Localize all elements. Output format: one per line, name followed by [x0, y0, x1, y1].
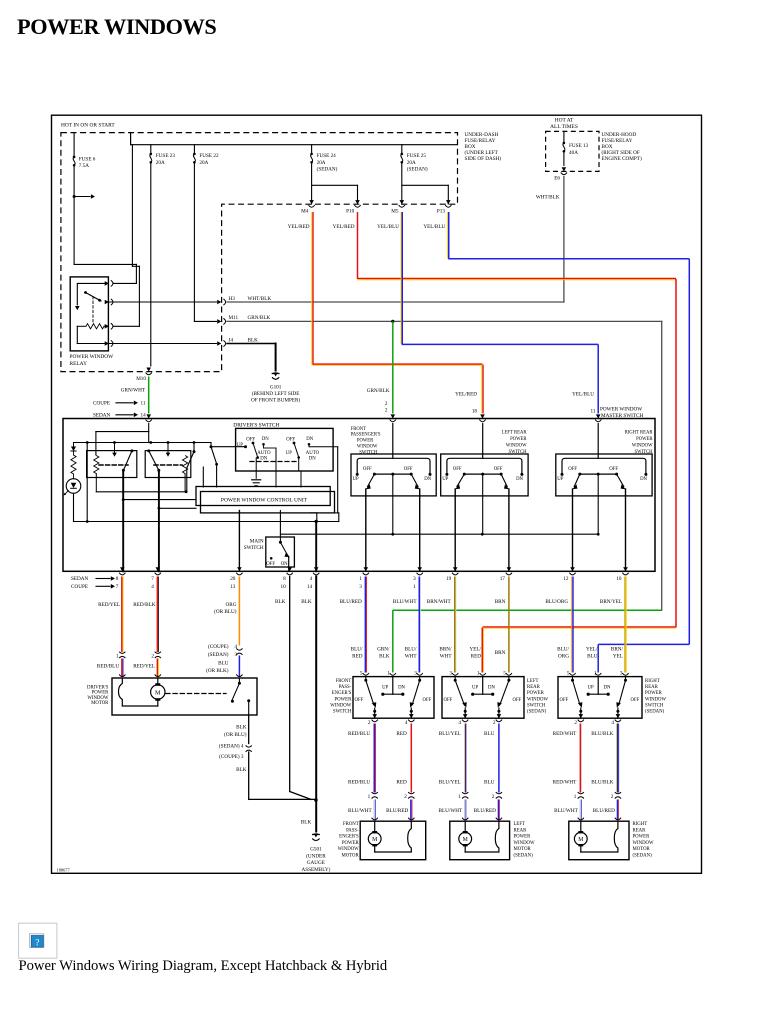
svg-text:J4: J4	[229, 337, 234, 343]
svg-text:UP: UP	[442, 477, 448, 482]
master internal bus	[74, 442, 212, 444]
svg-text:WHT: WHT	[405, 653, 418, 659]
relay coil box A	[87, 451, 137, 478]
svg-text:BLU/RED: BLU/RED	[474, 808, 496, 814]
svg-text:BLU/YEL: BLU/YEL	[439, 731, 461, 737]
svg-text:DN: DN	[309, 456, 316, 461]
wire YEL/BLU from P13	[448, 212, 450, 259]
svg-text:(OR BLU): (OR BLU)	[224, 731, 247, 738]
wire BLU/YEL lr	[465, 724, 467, 793]
master pin GRN/WHT	[146, 414, 151, 418]
svg-text:ORG: ORG	[226, 602, 237, 608]
svg-text:POWER WINDOW CONTROL UNIT: POWER WINDOW CONTROL UNIT	[221, 498, 308, 504]
wire RED/YEL driver down lower	[156, 659, 158, 678]
svg-text:OFF: OFF	[513, 698, 522, 703]
svg-text:20: 20	[230, 576, 236, 582]
wire GRN/BLK drop to master	[392, 321, 394, 413]
svg-text:MOTOR: MOTOR	[341, 854, 359, 859]
wire DN to right side	[337, 447, 339, 513]
svg-text:WINDOW: WINDOW	[357, 445, 378, 450]
svg-text:(BEHIND LEFT SIDE: (BEHIND LEFT SIDE	[252, 390, 300, 397]
svg-text:4: 4	[405, 720, 408, 726]
left rear window motor (sedan) box	[450, 821, 510, 860]
right rear switch (sedan) left blade	[572, 677, 574, 680]
svg-text:REAR: REAR	[514, 828, 528, 833]
left rear switch (sedan) left blade	[454, 677, 456, 680]
driver's power window motor box	[112, 678, 257, 715]
left rear window switch (master) box	[441, 454, 528, 496]
svg-text:10: 10	[281, 584, 287, 590]
svg-text:BRN/: BRN/	[439, 647, 452, 653]
svg-text:WINDOW: WINDOW	[632, 444, 653, 449]
svg-text:RED: RED	[471, 653, 482, 659]
svg-text:MASTER SWITCH: MASTER SWITCH	[601, 413, 643, 419]
svg-text:E6: E6	[554, 176, 560, 182]
fuse F22 20A	[193, 145, 195, 153]
connector M11	[217, 319, 221, 324]
svg-text:(COUPE): (COUPE)	[208, 643, 229, 650]
svg-text:M: M	[578, 837, 583, 843]
connector M4	[309, 200, 314, 204]
power window master switch box	[63, 419, 655, 572]
svg-text:BLU/RED: BLU/RED	[593, 808, 615, 814]
svg-text:HOT IN ON OR START: HOT IN ON OR START	[61, 123, 115, 129]
right rear window switch (master) box	[556, 454, 652, 496]
svg-text:REAR: REAR	[633, 828, 647, 833]
front passenger window motor bottom link	[375, 851, 412, 853]
ground G501	[314, 833, 319, 837]
front passenger switch (sedan) bottom pins	[372, 714, 377, 718]
svg-text:M10: M10	[136, 376, 146, 382]
right rear window motor (sedan) box	[569, 821, 629, 860]
svg-text:GRN/BLK: GRN/BLK	[248, 315, 271, 321]
wire relay feed from bus	[131, 145, 133, 267]
wire RED/BLU fp	[373, 724, 375, 793]
fuse F23 20A	[150, 145, 152, 153]
svg-text:YEL/RED: YEL/RED	[333, 224, 355, 230]
svg-text:BLK: BLK	[248, 337, 259, 343]
svg-text:4: 4	[310, 576, 313, 582]
svg-text:2: 2	[385, 401, 388, 407]
wire cluster outputs	[255, 458, 257, 478]
svg-text:BLU: BLU	[218, 661, 229, 667]
svg-text:RED: RED	[396, 731, 407, 737]
svg-text:GAUGE: GAUGE	[307, 860, 325, 866]
svg-text:POWER: POWER	[357, 439, 374, 444]
svg-text:G101: G101	[270, 385, 282, 391]
svg-text:DN: DN	[306, 437, 313, 442]
front passenger window motor breaker	[408, 821, 412, 852]
front passenger switch (sedan) UP DN tee	[392, 677, 394, 695]
svg-text:HOT AT: HOT AT	[555, 117, 574, 123]
svg-text:BLK: BLK	[379, 653, 390, 659]
svg-text:OFF: OFF	[266, 562, 275, 567]
svg-text:RED/BLU: RED/BLU	[348, 731, 370, 737]
front passenger window switch (master) DN blade	[411, 474, 418, 487]
fuse F6 7.5A	[73, 133, 75, 156]
resistor R1	[73, 451, 75, 455]
left rear switch (sedan) bottom pins	[463, 714, 468, 718]
svg-text:ASSEMBLY): ASSEMBLY)	[301, 866, 330, 873]
right rear window motor (sedan) breaker	[614, 821, 618, 852]
wire GRN/BLK right drop	[661, 321, 663, 610]
right rear window switch (master) feed	[597, 424, 599, 459]
svg-text:4: 4	[235, 644, 238, 650]
svg-text:POWER WINDOW: POWER WINDOW	[70, 354, 115, 360]
svg-text:2: 2	[611, 794, 614, 800]
master pin 7/4	[156, 567, 161, 571]
front passenger switch (sedan) pin chevrons	[363, 673, 369, 675]
wire BRN/WHT to lr switch	[454, 577, 456, 673]
diagram outer border	[52, 115, 702, 873]
svg-text:BLK: BLK	[236, 725, 247, 731]
wire relay pin2 to H3	[109, 301, 217, 303]
left rear switch (sedan) pin chevrons	[452, 673, 458, 675]
svg-text:SWITCH: SWITCH	[244, 545, 264, 551]
front passenger window switch (master) center wire	[392, 474, 394, 534]
svg-text:20A: 20A	[407, 160, 416, 166]
svg-text:(SEDAN): (SEDAN)	[514, 854, 534, 859]
master pin 12	[570, 567, 575, 571]
svg-text:RED/WHT: RED/WHT	[553, 779, 577, 785]
svg-text:RIGHT: RIGHT	[645, 679, 660, 684]
internal rail to switches	[280, 533, 598, 535]
svg-text:2: 2	[492, 794, 495, 800]
front passenger window motor pin chevrons	[372, 818, 378, 820]
svg-text:PASSENGER'S: PASSENGER'S	[351, 433, 381, 438]
svg-text:RED/WHT: RED/WHT	[553, 731, 577, 737]
left rear window switch (master) feed	[482, 424, 484, 459]
svg-text:WHT/BLK: WHT/BLK	[248, 296, 272, 302]
svg-text:POWER: POWER	[514, 835, 532, 840]
svg-text:YEL/: YEL/	[469, 647, 481, 653]
wire GRN/BLK run	[227, 320, 662, 322]
svg-text:7.5A: 7.5A	[79, 163, 89, 169]
svg-text:BLU/ORG: BLU/ORG	[545, 599, 568, 605]
right rear switch (sedan) right blade	[625, 677, 627, 680]
svg-text:UP: UP	[286, 451, 292, 456]
svg-text:MOTOR: MOTOR	[514, 847, 532, 852]
driver motor M	[155, 674, 161, 676]
svg-text:H3: H3	[229, 296, 236, 302]
svg-text:OFF: OFF	[444, 698, 453, 703]
svg-text:RED/BLU: RED/BLU	[348, 779, 370, 785]
right rear window switch (master) contact bar	[562, 458, 646, 474]
svg-text:BLK: BLK	[301, 820, 312, 826]
svg-text:4: 4	[458, 720, 461, 726]
svg-text:BRN: BRN	[495, 650, 506, 656]
right rear switch (sedan) bottom pins	[579, 714, 584, 718]
wire DN drive output	[158, 470, 160, 571]
svg-text:UP: UP	[472, 686, 478, 691]
right rear window switch (master) DN blade	[617, 474, 624, 487]
relay internal contact arm	[77, 283, 108, 305]
driver motor bottom link	[122, 705, 158, 707]
wire internal branch	[86, 443, 88, 522]
svg-text:UP: UP	[557, 477, 563, 482]
ground G101	[273, 372, 278, 376]
svg-text:DN: DN	[260, 456, 267, 461]
wire BLK to G101	[227, 343, 276, 345]
wire BLU driver switch link	[238, 656, 240, 678]
connector J4	[217, 341, 221, 346]
front passenger switch (sedan) left blade	[365, 677, 367, 680]
wire GRN/WHT	[148, 377, 150, 414]
svg-text:COUPE: COUPE	[93, 401, 110, 407]
svg-text:POWER: POWER	[335, 697, 353, 702]
master pin 8/10	[287, 567, 292, 571]
svg-text:G501: G501	[310, 847, 322, 853]
relay pin1 connector	[105, 281, 109, 286]
svg-text:(RIGHT SIDE OF: (RIGHT SIDE OF	[602, 149, 640, 156]
svg-text:GRN/: GRN/	[377, 647, 390, 653]
wire M11 from fuse22	[194, 320, 216, 322]
svg-text:BLK: BLK	[236, 767, 247, 773]
svg-text:M11: M11	[229, 315, 239, 321]
switch S2 to coil rail	[193, 443, 195, 452]
svg-text:COUPE: COUPE	[71, 584, 88, 590]
wire rail notch	[74, 521, 339, 523]
driver's switch link dashed	[250, 461, 298, 463]
svg-text:POWER WINDOW: POWER WINDOW	[600, 407, 642, 413]
svg-text:OFF: OFF	[631, 698, 640, 703]
wire BLU/ORG to rr switch	[572, 577, 574, 673]
svg-text:BLK: BLK	[275, 599, 286, 605]
relay internal link dashed	[92, 297, 94, 324]
svg-text:M5: M5	[391, 208, 399, 214]
front passenger switch (sedan) right blade	[419, 677, 421, 680]
svg-text:OFF: OFF	[246, 438, 255, 443]
connector P10	[355, 200, 360, 204]
svg-text:ENGINE COMPT): ENGINE COMPT)	[602, 155, 642, 162]
svg-text:DN: DN	[604, 686, 611, 691]
left rear switch (sedan) box	[442, 677, 524, 719]
wire fuse24 branch	[312, 184, 358, 186]
svg-text:BRN/: BRN/	[611, 647, 624, 653]
wire driver motor BLK return	[248, 715, 250, 744]
svg-text:(SEDAN): (SEDAN)	[407, 166, 428, 173]
svg-text:40A: 40A	[569, 150, 578, 156]
wire BLU/WHT to fp switch	[418, 577, 420, 673]
help icon	[19, 923, 57, 958]
svg-text:FUSE 13: FUSE 13	[569, 143, 589, 149]
svg-text:1: 1	[574, 794, 577, 800]
svg-text:3: 3	[413, 576, 416, 582]
wire BLU/RED to fp switch	[364, 577, 366, 673]
svg-text:POWER WINDOWS: POWER WINDOWS	[17, 14, 216, 39]
svg-text:DRIVER'S SWITCH: DRIVER'S SWITCH	[233, 422, 279, 428]
main switch contact	[279, 537, 281, 542]
relay coil	[77, 325, 86, 327]
power bus wire	[131, 144, 457, 146]
svg-text:ALL TIMES: ALL TIMES	[550, 124, 578, 130]
svg-text:BLU/RED: BLU/RED	[340, 599, 362, 605]
svg-text:FRONT: FRONT	[351, 427, 367, 432]
svg-text:BLU/WHT: BLU/WHT	[439, 808, 463, 814]
left rear window motor (sedan) pin chevrons	[462, 818, 468, 820]
wire to control unit B	[159, 507, 196, 509]
right rear window switch (master) rocker bar	[580, 473, 617, 475]
connector C1 driver up	[119, 652, 125, 654]
svg-text:12: 12	[563, 576, 569, 582]
svg-text:188677: 188677	[57, 868, 71, 873]
svg-text:ENGER'S: ENGER'S	[332, 691, 352, 696]
svg-text:FUSE 23: FUSE 23	[156, 153, 176, 159]
left rear window switch (master) UP blade	[457, 474, 464, 487]
master pin 3/1	[417, 567, 422, 571]
svg-text:P10: P10	[346, 208, 354, 214]
right rear window switch (master) UP blade	[574, 474, 580, 487]
svg-text:7: 7	[116, 584, 119, 590]
svg-text:7: 7	[151, 576, 154, 582]
svg-text:20A: 20A	[156, 160, 165, 166]
power window relay box	[70, 277, 108, 351]
driver's switch box	[236, 428, 334, 471]
svg-text:BLU/WHT: BLU/WHT	[554, 808, 578, 814]
svg-text:YEL: YEL	[613, 653, 623, 659]
svg-text:FRONT: FRONT	[343, 822, 359, 827]
svg-text:(SEDAN): (SEDAN)	[527, 710, 547, 715]
left rear window switch (master) output wires	[454, 489, 456, 571]
wire RED/YEL driver up	[121, 577, 123, 653]
svg-text:WHT/BLK: WHT/BLK	[536, 195, 560, 201]
main switch box	[266, 537, 295, 567]
svg-text:1: 1	[116, 653, 119, 659]
svg-text:18: 18	[472, 409, 478, 415]
svg-text:REAR: REAR	[645, 685, 659, 690]
master pin 10	[623, 567, 628, 571]
relay pin2 connector	[105, 300, 109, 305]
svg-text:10: 10	[616, 576, 622, 582]
svg-text:BLU/YEL: BLU/YEL	[439, 779, 461, 785]
svg-text:SWITCH: SWITCH	[333, 710, 352, 715]
wire YEL/RED from M4	[312, 212, 314, 365]
wire to control unit A	[123, 499, 196, 501]
svg-text:MOTOR: MOTOR	[633, 847, 651, 852]
svg-text:RED/BLK: RED/BLK	[133, 602, 155, 608]
svg-text:BLU: BLU	[587, 653, 598, 659]
svg-text:YEL/BLU: YEL/BLU	[377, 224, 399, 230]
left rear switch (sedan) UP DN tee	[482, 677, 484, 695]
svg-text:19: 19	[446, 576, 452, 582]
fuse F25 20A (SEDAN)	[401, 145, 403, 153]
svg-text:M: M	[155, 690, 161, 697]
svg-text:POWER: POWER	[342, 841, 360, 846]
svg-text:RED/YEL: RED/YEL	[133, 663, 155, 669]
wire coil common	[95, 474, 97, 492]
left rear window switch (master) DN blade	[501, 474, 507, 487]
svg-text:BLU: BLU	[484, 779, 495, 785]
svg-text:FUSE 22: FUSE 22	[199, 153, 219, 159]
wire BLU/BLK rr	[616, 724, 618, 793]
wire BLK to pin 4/14	[315, 521, 317, 571]
power window control unit box	[196, 487, 330, 506]
svg-text:3: 3	[235, 652, 238, 658]
wire control unit to main switch	[279, 511, 281, 538]
master pin 20/13	[237, 567, 242, 571]
svg-text:ON: ON	[281, 562, 288, 567]
svg-text:WINDOW: WINDOW	[633, 841, 655, 846]
svg-text:2: 2	[368, 720, 371, 726]
svg-text:POWER: POWER	[527, 691, 545, 696]
right rear window motor (sedan) pin chevrons	[578, 818, 584, 820]
left rear window motor (sedan) breaker	[495, 821, 499, 852]
svg-text:DN: DN	[488, 686, 495, 691]
front passenger window switch (master) output wires	[365, 489, 367, 571]
svg-text:(UNDER: (UNDER	[306, 852, 326, 859]
relay pin3 connector	[105, 324, 109, 329]
under-hood fuse/relay box dashed border	[546, 131, 599, 171]
left rear window switch (master) rocker bar	[464, 473, 501, 475]
fuse F13 40A	[563, 131, 565, 142]
driver motor dashed link	[166, 693, 226, 695]
junction GRN/BLK	[391, 320, 394, 323]
svg-text:DN: DN	[516, 477, 523, 482]
svg-text:SEDAN: SEDAN	[93, 413, 111, 419]
master pin 4/14	[314, 567, 319, 571]
LED indicator	[66, 479, 81, 494]
wire RED/BLU driver up lower	[121, 659, 123, 678]
svg-text:BLU/BLK: BLU/BLK	[591, 731, 613, 737]
wire BRN/YEL to rr switch	[624, 577, 626, 673]
master pin 1/3	[364, 567, 369, 571]
svg-text:FUSE 24: FUSE 24	[317, 153, 337, 159]
connector C3 org	[236, 648, 242, 650]
front passenger window switch (master) box	[351, 454, 436, 496]
svg-text:DN: DN	[262, 437, 269, 442]
svg-text:FUSE 6: FUSE 6	[79, 156, 96, 162]
svg-text:YEL/BLU: YEL/BLU	[423, 224, 445, 230]
svg-text:SIDE OF DASH): SIDE OF DASH)	[465, 155, 502, 162]
svg-text:WINDOW: WINDOW	[645, 697, 667, 702]
svg-text:DN: DN	[424, 477, 431, 482]
svg-text:PASS-: PASS-	[346, 828, 359, 833]
svg-text:WINDOW: WINDOW	[527, 697, 549, 702]
svg-text:2: 2	[151, 653, 154, 659]
svg-text:SWITCH: SWITCH	[527, 703, 546, 708]
right rear window motor (sedan) bottom link	[581, 851, 618, 853]
svg-text:AUTO: AUTO	[306, 451, 320, 456]
svg-text:RIGHT: RIGHT	[633, 822, 648, 827]
driver motor breaker	[119, 674, 125, 676]
svg-text:1: 1	[359, 576, 362, 582]
left rear window switch (master) center wire	[482, 474, 484, 534]
branch arrow on fuse 6 wire	[73, 195, 76, 198]
svg-text:BRN/WHT: BRN/WHT	[427, 599, 452, 605]
front passenger switch (sedan) box	[353, 677, 434, 719]
master pin 18 YEL/RED	[480, 414, 485, 418]
front passenger window switch (master) contact bar	[357, 458, 430, 474]
svg-text:4: 4	[151, 584, 154, 590]
junction BLK	[315, 520, 318, 523]
wire relay pin4 to J4	[109, 343, 217, 345]
svg-text:WINDOW: WINDOW	[338, 847, 360, 852]
svg-text:OFF: OFF	[423, 698, 432, 703]
svg-text:LEFT: LEFT	[514, 822, 526, 827]
svg-text:8: 8	[116, 576, 119, 582]
svg-text:14: 14	[307, 584, 313, 590]
svg-text:OFF: OFF	[494, 467, 503, 472]
right rear switch (sedan) pin chevrons	[569, 673, 575, 675]
master pin 19	[453, 567, 458, 571]
left rear switch (sedan) right blade	[508, 677, 510, 680]
front passenger window motor box	[360, 821, 426, 860]
connector P13	[446, 200, 451, 204]
svg-text:2: 2	[385, 408, 388, 414]
svg-text:BRN/YEL: BRN/YEL	[600, 599, 622, 605]
wire YEL/BLU from M5	[401, 212, 403, 344]
svg-text:ORG: ORG	[558, 653, 569, 659]
